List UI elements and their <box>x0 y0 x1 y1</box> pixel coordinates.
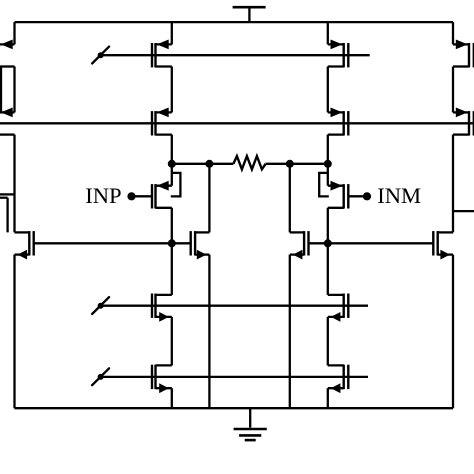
wire: mid-right column INM drain down through row3 gate node to row4 <box>327 208 329 295</box>
wire: mid-right column row4-row5 <box>327 317 329 366</box>
wire: row-4 NMOS gate bias line with current tap <box>101 305 368 307</box>
transistor M5 (PMOS, row 2, left edge, cut off) <box>0 108 15 135</box>
INP input terminal <box>127 192 152 200</box>
wire: mid-right column rail to row1 <box>327 22 329 44</box>
wire: right tail drop to row3 <box>289 164 291 233</box>
wire: mid-right column row2 to node B <box>327 135 329 186</box>
transistor M16 (NMOS, row 5, mid-right) <box>328 365 349 393</box>
MIN1 bulk hook <box>171 173 181 197</box>
wire: right edge stub <box>453 210 474 212</box>
transistor M14 (NMOS, row 4, mid-right) <box>328 294 349 322</box>
wire: mid-left column row4-row5 <box>171 317 173 366</box>
wire: right column mid <box>452 67 454 113</box>
wire: mid-right column row5 to ground rail <box>327 388 329 408</box>
wire: left column mid <box>13 67 15 113</box>
transistor M10 (NMOS, row 3, mid-left) <box>191 231 210 259</box>
node B junction dot <box>324 160 332 168</box>
ground symbol <box>234 408 267 440</box>
transistor M11 (NMOS, row 3, mid-right) <box>290 231 309 259</box>
transistor M3 (PMOS, row 1, mid-right) <box>328 40 349 68</box>
svg-text:INP: INP <box>85 183 121 208</box>
input transistor MIN2 (PMOS, INM) <box>328 181 349 209</box>
wire: left tail row3 to ground rail <box>208 255 210 409</box>
INM input terminal <box>348 192 371 200</box>
wire: mid-left column INP drain down to row3 gate node, to row4 <box>171 208 173 295</box>
wire: row-3 left gate line <box>34 242 191 244</box>
wire: node line left (node A) <box>172 163 234 165</box>
wire: left edge channel link <box>0 67 2 113</box>
wire: left column bottom <box>13 255 15 409</box>
wire: mid-left column row5 to ground rail <box>171 388 173 408</box>
transistor M8 (PMOS, row 2, right edge) <box>453 108 474 136</box>
wire: row-5 NMOS gate bias line with current tap <box>101 376 368 378</box>
wire: left tail drop to row3 <box>208 164 210 233</box>
wire: right column top <box>452 22 454 44</box>
input transistor MIN1 (PMOS, INP) <box>152 181 172 209</box>
junction dot row-3 right gate node <box>324 239 332 247</box>
wire: left column long <box>13 135 15 233</box>
transistor M13 (NMOS, row 4, mid-left) <box>152 294 172 322</box>
transistor M2 (PMOS, row 1, mid-left) <box>152 40 172 68</box>
transistor M4 (PMOS, row 1, right edge) <box>453 40 474 68</box>
wire: row-1 PMOS gate bias line with current tap <box>101 54 370 56</box>
wire: mid-left column row1-row2 <box>171 67 173 113</box>
wire: left column top <box>13 22 15 44</box>
transistor M7 (PMOS, row 2, mid-right) <box>328 108 349 136</box>
junction dot left tail drop <box>205 160 213 168</box>
MIN2 bulk hook <box>319 173 329 197</box>
junction dot right tail drop <box>286 160 294 168</box>
wire: mid-right column row1-row2 <box>327 67 329 113</box>
junction dot row-3 left gate node <box>168 239 176 247</box>
wire: row-3 right gate line <box>309 242 434 244</box>
wire: left edge stubs to column <box>0 194 15 232</box>
transistor M6 (PMOS, row 2, mid-left) <box>152 108 172 136</box>
wire: right column long <box>452 135 454 233</box>
wire: mid-left column row2 to node A <box>171 135 173 186</box>
wire: node line right (node B) <box>266 163 328 165</box>
wire: right column bottom <box>452 255 454 409</box>
node A junction dot <box>168 160 176 168</box>
bias tap arrow B1 <box>92 47 109 64</box>
transistor M15 (NMOS, row 5, mid-left) <box>152 365 172 393</box>
transistor M9 (NMOS, row 3, far left) <box>15 231 34 259</box>
svg-text:INM: INM <box>377 183 421 208</box>
wire: top VDD rail <box>15 21 454 23</box>
VDD supply symbol <box>233 7 266 22</box>
wire: right tail row3 to ground rail <box>289 255 291 409</box>
bias tap arrow B2 <box>92 297 109 314</box>
transistor M1 (PMOS, row 1, left edge, cut off) <box>0 40 15 67</box>
resistor R1 <box>233 156 265 169</box>
bias tap arrow B3 <box>92 368 109 385</box>
transistor M12 (NMOS, row 3, far right) <box>433 231 453 259</box>
wire: mid-left column rail to row1 <box>171 22 173 44</box>
wire: row-2 PMOS gate bias line (full width) <box>0 122 474 124</box>
wire: bottom ground rail <box>15 407 454 409</box>
